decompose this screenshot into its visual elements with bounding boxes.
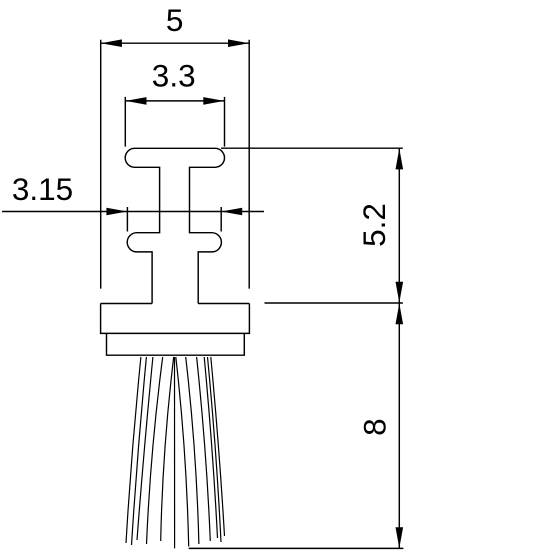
arrow dim3.15 left — [106, 208, 127, 216]
svg-text:5: 5 — [166, 2, 184, 38]
bristle 9 — [204, 357, 217, 538]
arrow dim5.2 top — [396, 148, 404, 169]
arrow dim3.3 left — [126, 97, 147, 105]
bristle 1 — [126, 357, 141, 543]
arrow dim3.3 right — [203, 97, 224, 105]
node ferrule box — [107, 333, 245, 355]
bristle 2 — [132, 357, 147, 545]
wire ext line 3.3 right — [224, 97, 226, 147]
wire dim line 5.2 — [398, 148, 400, 303]
bristle 3 — [137, 357, 153, 540]
arrow dim8 bottom — [396, 527, 404, 548]
wire flange top left segment — [101, 303, 153, 305]
arrow dim3.15 right — [221, 208, 242, 216]
svg-text:5.2: 5.2 — [356, 203, 392, 247]
wire dim line 3.3 — [125, 100, 224, 102]
bristle 11 — [211, 357, 225, 536]
wire flange top right segment — [198, 303, 249, 305]
wire body left side / ext line of dim 5 — [100, 40, 102, 289]
bristle 10 — [208, 357, 222, 542]
wire dim line 5 — [101, 42, 250, 44]
wire dim line 8 — [398, 303, 400, 548]
wire ext line 5.2/8 middle — [265, 302, 403, 304]
brush bristles — [126, 357, 225, 548]
arrow dim5.2 bottom — [396, 282, 404, 303]
bristle 8 — [197, 357, 211, 541]
wire ext line 8 bottom — [189, 547, 404, 549]
svg-text:8: 8 — [356, 418, 392, 436]
arrow dim5 right — [228, 39, 249, 47]
wire body right side / ext line of dim 5 — [248, 40, 250, 289]
node cavity outline — [125, 148, 224, 303]
bristle 6 — [176, 357, 189, 547]
bristle 4 — [147, 357, 163, 544]
arrow dim8 top — [396, 303, 404, 324]
svg-text:3.3: 3.3 — [152, 57, 196, 93]
node flange box — [101, 304, 250, 334]
bristle 5 — [161, 357, 174, 541]
bristle 7 — [186, 357, 199, 544]
wire dim line 3.15 — [2, 211, 264, 213]
wire ext line 3.3 left — [124, 97, 126, 147]
wire tick 3.15 right — [220, 207, 222, 232]
arrow dim5 left — [101, 39, 122, 47]
svg-text:3.15: 3.15 — [12, 171, 73, 207]
wire ext line 5.2 top — [221, 147, 403, 149]
bristle center — [174, 357, 176, 548]
wire tick 3.15 left — [126, 207, 128, 232]
